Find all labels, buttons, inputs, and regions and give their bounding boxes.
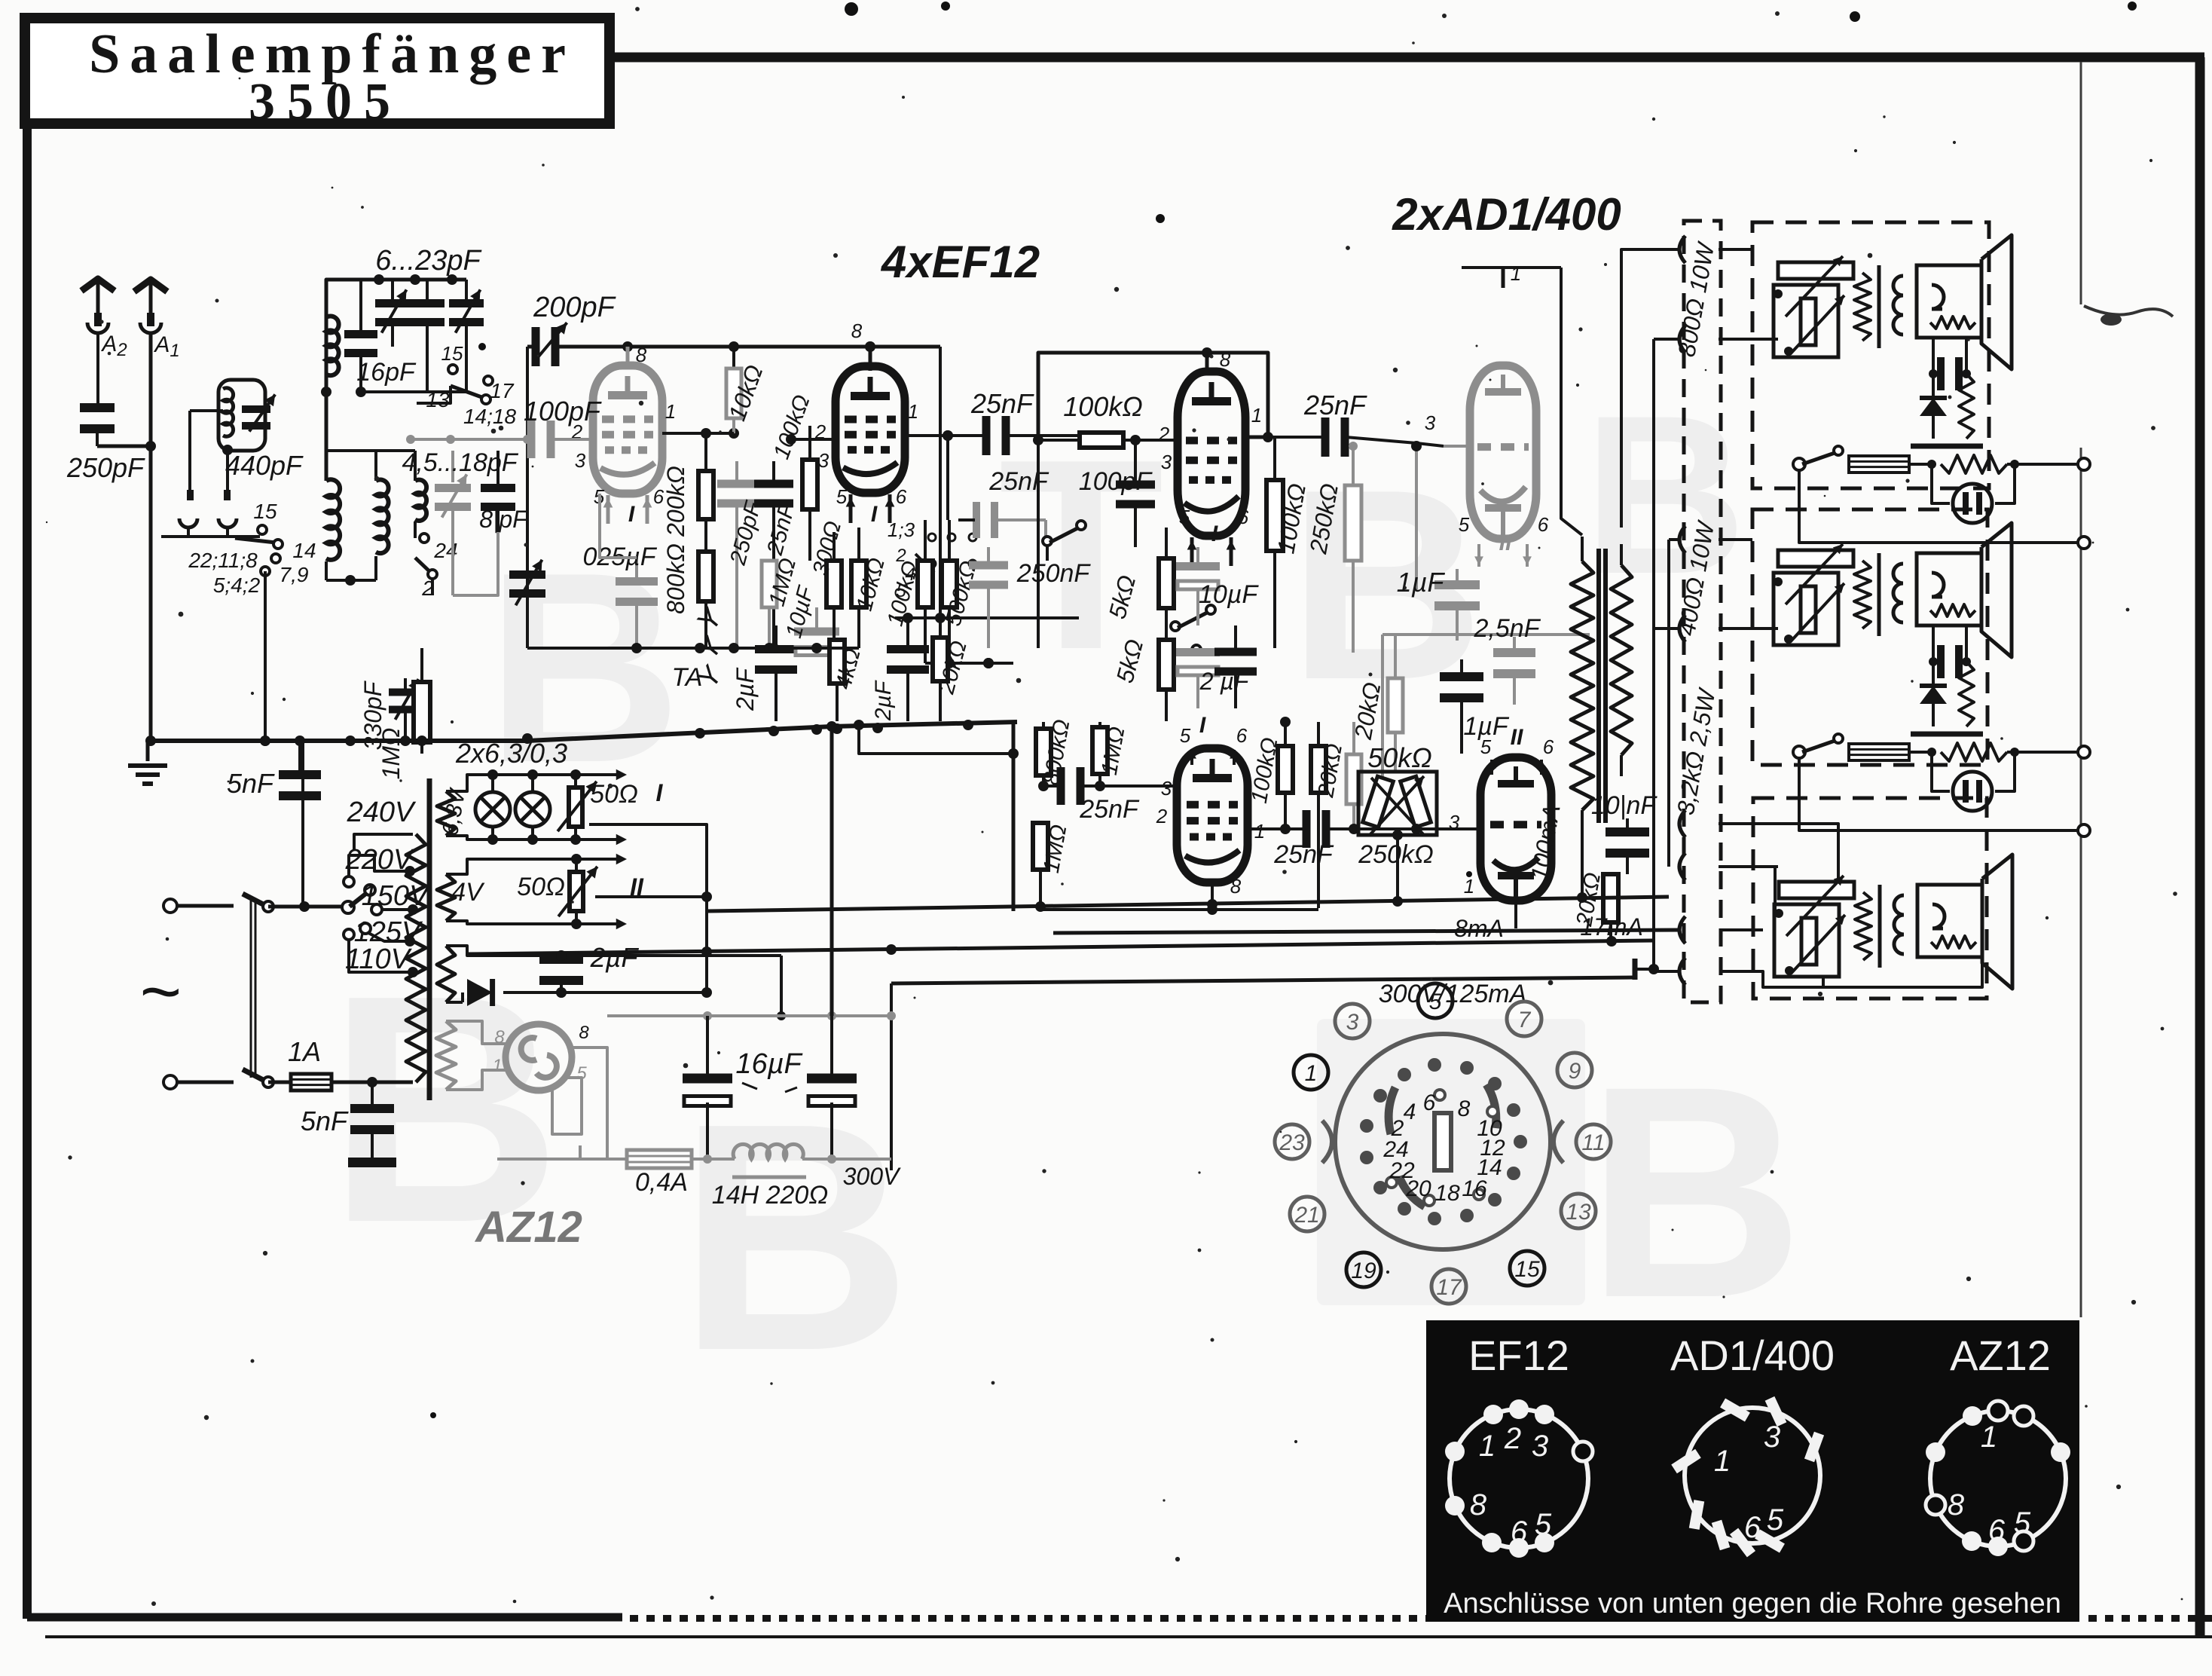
label 500kΩ [941, 558, 982, 628]
label mains ~ [139, 952, 180, 1032]
switch bank s1 [888, 518, 976, 601]
label tube2 pin3 [818, 449, 829, 472]
svg-text:14: 14 [292, 539, 316, 562]
svg-text:AZ12: AZ12 [1950, 1332, 2051, 1379]
svg-text:Anschlüsse von unten gegen die: Anschlüsse von unten gegen die Rohre ges… [1444, 1588, 2061, 1619]
svg-text:2x6,3/0,3: 2x6,3/0,3 [455, 738, 567, 769]
rheostat 50Ω I [558, 769, 597, 845]
diode psu [446, 979, 712, 1006]
label tube4 pin5 [1180, 724, 1196, 765]
svg-text:3: 3 [1425, 411, 1436, 434]
wire bus A [708, 540, 1669, 912]
svg-text:5: 5 [836, 485, 848, 508]
label 4V [451, 878, 485, 907]
svg-text:5: 5 [1429, 989, 1442, 1014]
svg-text:1: 1 [1714, 1445, 1731, 1478]
speaker unit 2 [1774, 523, 2090, 836]
border frame left [23, 14, 32, 1619]
wire pin8 bus stage1 [555, 341, 940, 618]
panel socket AD1/400 [1671, 1396, 1824, 1558]
resistor 1MΩ s4b [1033, 786, 1048, 910]
svg-text:8: 8 [1230, 875, 1242, 898]
svg-text:17mA: 17mA [1580, 913, 1643, 940]
label 300Ω [808, 518, 846, 578]
svg-text:22;11;8: 22;11;8 [188, 549, 258, 572]
svg-text:250nF: 250nF [1016, 559, 1092, 588]
wire A1 down [145, 446, 156, 746]
svg-text:8mA: 8mA [1454, 915, 1504, 942]
svg-text:6: 6 [1423, 1090, 1436, 1115]
label 25nF s4 [1079, 795, 1140, 824]
strip terminals [1679, 236, 1685, 985]
svg-text:6: 6 [1744, 1511, 1761, 1544]
label 1µF top [1397, 567, 1446, 598]
label 10kΩ s1 [723, 361, 768, 424]
label tube4 pin2 [1156, 805, 1168, 827]
title box [25, 18, 610, 124]
wire band coil bottom [326, 575, 376, 586]
label 1MΩ s4a [1097, 725, 1130, 777]
label 2x6,3/0,3 [455, 738, 567, 769]
trimmer capacitor 330pF [509, 439, 545, 648]
label 2µF psu [590, 942, 640, 973]
svg-text:1: 1 [1479, 1430, 1496, 1463]
svg-text:15: 15 [1514, 1257, 1540, 1282]
speaker unit 1 dashed box [1752, 222, 1989, 488]
svg-text:50kΩ: 50kΩ [1367, 742, 1431, 773]
label 100kΩ s2 [769, 392, 815, 463]
svg-text:5nF: 5nF [301, 1106, 349, 1136]
speaker unit 2 dashed box [1752, 509, 1987, 765]
resistor 250kΩ s4 [1346, 722, 1361, 834]
tube EF12 III [1178, 372, 1245, 566]
svg-text:11: 11 [1581, 1130, 1605, 1155]
fuse 0,4A [580, 1150, 712, 1168]
label ad1b pin1 [1464, 875, 1474, 898]
label ad1t pin1 [1511, 262, 1521, 285]
resistor 100kΩ s3h [1038, 433, 1177, 448]
svg-text:8: 8 [851, 320, 863, 342]
svg-text:50Ω: 50Ω [517, 873, 565, 901]
svg-text:100pF: 100pF [1079, 467, 1153, 496]
label 5;4;2 [213, 573, 261, 597]
label 2b [421, 577, 434, 600]
terminal TA jacks [692, 602, 729, 694]
label 6...23pF [375, 245, 481, 277]
voltage selector lever [342, 885, 375, 913]
label 10µF s2 [781, 583, 819, 641]
panel title EF12 [1468, 1332, 1569, 1379]
label 400Ω 10W [1673, 518, 1719, 638]
svg-text:1: 1 [1511, 262, 1521, 285]
capacitor 5nF upper [279, 741, 321, 821]
svg-text:1: 1 [1254, 820, 1265, 843]
svg-text:1: 1 [1251, 404, 1262, 427]
heater winding 6.3V [437, 769, 627, 846]
wire az12 plate wire left [497, 1073, 580, 1159]
capacitor 10µF b [1176, 648, 1220, 708]
label az12 pin5 [576, 1063, 587, 1084]
wire trimmer box [453, 532, 498, 595]
label 3,2kΩ 2,5W [1672, 685, 1721, 817]
svg-text:8: 8 [1220, 348, 1231, 371]
label 2µF s2 [871, 680, 896, 721]
wire ad1b grid [1411, 824, 1480, 834]
wire ad1t grid [1411, 441, 1470, 589]
svg-text:16pF: 16pF [356, 358, 417, 387]
label tube1 pin2 [571, 421, 583, 443]
label 16µF [735, 1048, 802, 1092]
wire sub bus s1 [527, 643, 859, 653]
svg-text:2: 2 [1158, 423, 1170, 445]
svg-text:800kΩ: 800kΩ [662, 543, 689, 614]
speaker unit 3 [1774, 855, 2012, 989]
ground chassis right [1635, 959, 1659, 980]
svg-text:2µF: 2µF [732, 667, 759, 711]
potentiometer 50kΩ [1358, 772, 1437, 900]
wire pin8 stage2 [865, 341, 875, 371]
wire tuner top bus [326, 274, 466, 451]
capacitor 200pF [527, 323, 628, 439]
label tube3 pin3 [1161, 451, 1172, 473]
cable connector socket [1322, 1034, 1563, 1249]
capacitor 16pF [344, 280, 377, 392]
svg-text:10|nF: 10|nF [1591, 791, 1658, 820]
capacitor 25nF s4out [1248, 810, 1416, 848]
svg-text:1: 1 [908, 400, 918, 423]
resistor 10kΩ s1 [726, 347, 741, 433]
tube AD1 II top [1470, 365, 1536, 567]
svg-text:5: 5 [1180, 724, 1191, 747]
label 4,5...18pF [402, 448, 518, 477]
fuse 1A [268, 1074, 413, 1090]
svg-text:4: 4 [1404, 1099, 1416, 1124]
wire switch to selector [268, 901, 347, 912]
svg-text:3: 3 [575, 449, 586, 472]
svg-text:2µF: 2µF [871, 680, 896, 721]
tube AD1 II bottom [1480, 757, 1551, 901]
label tube3 pin5 [1179, 506, 1190, 528]
svg-text:8: 8 [636, 344, 647, 366]
label 5nF upper [227, 768, 275, 799]
mains terminal lower [163, 1075, 177, 1089]
title text 3505 [249, 73, 402, 131]
svg-text:21: 21 [1294, 1203, 1319, 1228]
label tube4 pin3 [1161, 777, 1172, 800]
svg-text:5: 5 [2014, 1506, 2031, 1540]
svg-text:3: 3 [1161, 777, 1172, 800]
resistor 1MΩ s2 [762, 561, 777, 648]
wire box3 feeds [1719, 824, 1778, 867]
svg-text:1A: 1A [288, 1036, 321, 1067]
resistor 300Ω [826, 532, 842, 648]
svg-text:25nF: 25nF [970, 388, 1034, 419]
heading 4xEF12 [881, 237, 1040, 287]
svg-text:100kΩ: 100kΩ [1063, 391, 1142, 422]
wire AD1-II top feed [1416, 268, 1582, 535]
border frame right [2195, 57, 2205, 1637]
label 250pF [726, 498, 767, 568]
label 20kΩ s4 [1313, 742, 1347, 800]
panel socket AZ12 [1926, 1401, 2070, 1556]
capacitor 100pF [482, 421, 593, 458]
svg-text:14;18: 14;18 [463, 405, 516, 428]
svg-text:25nF: 25nF [988, 467, 1049, 496]
svg-text:II: II [1499, 531, 1512, 555]
resistor 250pF+25nF pair [717, 461, 793, 648]
resistor 500kΩ [925, 520, 1013, 668]
band coil 1 [326, 479, 340, 580]
svg-text:3: 3 [818, 449, 829, 472]
label tube2 I [871, 502, 878, 527]
svg-text:I: I [1199, 713, 1206, 738]
svg-text:15: 15 [441, 342, 463, 365]
resistor 100kΩ s3v [1266, 437, 1283, 648]
wire filter drop [301, 741, 304, 907]
resistor 20kΩ out [1603, 874, 1618, 942]
resistor 250kΩ s3 [1345, 442, 1361, 653]
svg-text:4V: 4V [451, 878, 485, 907]
label ad1b II [1511, 725, 1523, 750]
svg-text:0,4A: 0,4A [635, 1168, 688, 1197]
label tube1 pin6 [653, 485, 665, 508]
wire grid bus 1 [406, 435, 482, 444]
label 250pF [66, 452, 145, 483]
label 5nF psu [301, 1106, 349, 1136]
choke 14H 220Ω [707, 1144, 836, 1177]
switch s3 [1171, 605, 1215, 654]
output transformer primary [1571, 537, 1593, 903]
label tube1 pin5 [594, 485, 605, 508]
svg-text:13: 13 [1566, 1200, 1591, 1225]
svg-text:110V: 110V [345, 944, 413, 975]
resistor 100kΩ s4 [1278, 717, 1293, 834]
svg-text:240V: 240V [347, 797, 417, 828]
label 14H 220Ω [712, 1181, 828, 1210]
tube EF12 IV [1177, 748, 1248, 882]
HV winding [437, 946, 786, 1020]
svg-text:3: 3 [1346, 1010, 1359, 1035]
resistor 20kΩ ad1 [1388, 635, 1403, 772]
jack cups [179, 518, 237, 537]
label 25nF s4out [1273, 840, 1334, 869]
capacitor 16µF b [807, 722, 857, 1159]
label 50Ω I [590, 779, 663, 809]
svg-text:1: 1 [1305, 1061, 1318, 1086]
wire s2 box [785, 265, 991, 661]
wire stage2 anode [943, 430, 953, 441]
label tube2 pin8 [851, 320, 863, 342]
label 250kΩ s4 [1358, 840, 1434, 869]
label 13 [426, 388, 450, 411]
wire az12 cathode to caps [607, 1011, 896, 1020]
tube EF12 I [593, 365, 662, 524]
label 100kΩ v [883, 558, 924, 628]
label tube2 pin1 [908, 400, 918, 423]
capacitor 2µF psu [539, 950, 583, 998]
border frame top [607, 53, 2204, 63]
band coil 2 [376, 479, 389, 580]
label 0,4A [635, 1168, 688, 1197]
svg-text:B: B [1587, 1023, 1804, 1360]
label 330pF [359, 680, 386, 750]
capacitor 2,5nF [1493, 637, 1535, 705]
label az12 pin8b [579, 1023, 589, 1043]
svg-text:16: 16 [1462, 1176, 1487, 1201]
capacitor 16µF a [683, 1016, 732, 1159]
label 50kΩ [1367, 742, 1431, 773]
wire az12 net [446, 1021, 607, 1159]
trimmer capacitor 4,5-18pF [435, 451, 471, 595]
svg-text:8: 8 [1458, 1096, 1471, 1121]
svg-text:2: 2 [1156, 805, 1168, 827]
connector pin numbers [1382, 1090, 1505, 1206]
wire HV bottom [441, 992, 442, 1002]
svg-text:3: 3 [1764, 1421, 1780, 1454]
capacitor 25nF s3 [1268, 417, 1416, 457]
svg-text:7: 7 [1518, 1008, 1532, 1032]
connector ring numbers [1275, 983, 1611, 1304]
pinout panel background [1426, 1320, 2079, 1622]
watermark BTB [328, 368, 1804, 1418]
switch contact mid [1043, 521, 1086, 561]
capacitor 1µF top [1434, 569, 1480, 641]
label tube2 pin2 [814, 421, 826, 443]
resistor 20kΩ b [933, 618, 948, 721]
svg-text:6...23pF: 6...23pF [375, 245, 481, 277]
label 100pF [524, 396, 602, 427]
svg-text:1MΩ: 1MΩ [377, 728, 405, 780]
label 240V [347, 797, 417, 828]
label 10nF [1591, 791, 1658, 820]
svg-text:16µF: 16µF [735, 1048, 802, 1080]
resistor 1MΩ input [414, 648, 430, 754]
label 5kΩ b [1111, 636, 1148, 685]
label tube1 I [628, 502, 635, 527]
band coil 3 [415, 480, 426, 538]
svg-text:250pF: 250pF [66, 452, 145, 483]
svg-text:17: 17 [490, 379, 515, 402]
svg-text:8: 8 [579, 1023, 589, 1043]
heater winding 4V [437, 854, 627, 930]
transformer core [427, 778, 432, 1100]
svg-text:1: 1 [1464, 875, 1474, 898]
switch 24-2 [415, 534, 437, 595]
label 200kΩ s1 [662, 466, 689, 537]
svg-text:50Ω: 50Ω [590, 780, 638, 809]
resistor 4kΩ [829, 640, 845, 721]
label 15b [441, 342, 463, 365]
mains terminal upper [163, 899, 177, 913]
capacitor 2µF ta [755, 625, 797, 721]
label ad1t pin6 [1538, 513, 1549, 536]
label 150V [362, 880, 431, 912]
wire heater II out [595, 892, 712, 902]
capacitor 25nF series1 [905, 416, 1086, 455]
label 025µF [582, 543, 657, 571]
label 1A [288, 1036, 321, 1067]
wire tuner mid [321, 378, 466, 451]
svg-text:2 µF: 2 µF [1199, 668, 1251, 695]
svg-text:200pF: 200pF [533, 292, 616, 323]
label az12 pin8a [494, 1027, 505, 1047]
resistor 800kΩ s1 [698, 552, 713, 601]
label 2,5nF [1474, 614, 1541, 643]
svg-text:3505: 3505 [249, 73, 402, 131]
svg-text:I: I [656, 779, 664, 806]
label 6,3V [438, 785, 471, 837]
tube AZ12 [506, 1024, 572, 1090]
resistor 100kΩ v [918, 520, 933, 663]
resistor 20kΩ s4 [1311, 722, 1326, 908]
AZ12 winding [436, 1021, 456, 1090]
coupling coil 440pF box [218, 380, 275, 455]
svg-text:EF12: EF12 [1468, 1332, 1569, 1379]
label 110V [345, 944, 413, 975]
label tube4 pin6 [1230, 724, 1248, 765]
wire bus B [1053, 930, 1681, 933]
label 20kΩ ad1 [1349, 680, 1386, 742]
label ad1b pin3 [1449, 811, 1460, 833]
antenna A2 [81, 279, 115, 408]
label tube3 pin6 [1238, 506, 1249, 528]
capacitor 8pF [481, 451, 515, 532]
dashed strip outer [1684, 221, 1721, 1002]
label 100kΩ s3h [1063, 391, 1142, 422]
mains switch upper [177, 894, 273, 1078]
label 440pF [225, 450, 304, 481]
label ad1t pin3 [1425, 411, 1436, 434]
wire A1/ground drop [224, 741, 225, 821]
svg-text:B: B [1584, 368, 1747, 621]
resistor 200kΩ s1 [698, 428, 734, 648]
switch 15 contacts [161, 525, 283, 746]
label TA [672, 663, 703, 692]
label 800kΩ s1 [662, 543, 689, 614]
label 300V/125mA [1379, 980, 1527, 1008]
transformer primary winding [406, 834, 426, 1082]
label 25nF r [762, 500, 800, 558]
wire cathode net s1 [527, 439, 637, 648]
label ad1t II [1499, 531, 1512, 555]
wire sec top [1621, 528, 1622, 544]
wire bus D [891, 971, 1635, 1170]
svg-text:17: 17 [1436, 1275, 1462, 1300]
trimmer capacitor 6-23pF a [375, 280, 410, 347]
svg-text:23: 23 [1279, 1130, 1305, 1155]
svg-text:3: 3 [1161, 451, 1172, 473]
crease artifact [2084, 306, 2173, 326]
svg-text:9: 9 [1569, 1059, 1581, 1084]
svg-text:200kΩ: 200kΩ [662, 466, 689, 537]
svg-text:10µF: 10µF [1199, 580, 1259, 609]
label ad1b pin5 [1480, 736, 1496, 775]
capacitor 25nF s2b [943, 430, 1049, 538]
capacitor 10nF [1606, 818, 1649, 874]
resistor 1MΩ s4a [1092, 722, 1108, 786]
capacitor 0,25µF s1 [616, 558, 658, 648]
label 10µF a [1199, 580, 1259, 609]
label tube4 pin1 [1254, 820, 1265, 843]
svg-text:AD1/400: AD1/400 [1670, 1332, 1835, 1379]
tube EF12 II(2) [836, 366, 905, 523]
wire anode3 [1245, 432, 1273, 442]
border frame bottom [27, 1613, 622, 1622]
wire ad1 bias net [1382, 589, 1590, 780]
border frame bottom thin [45, 1635, 2212, 1638]
svg-text:1: 1 [1981, 1421, 1997, 1454]
label 200pF [533, 292, 616, 323]
